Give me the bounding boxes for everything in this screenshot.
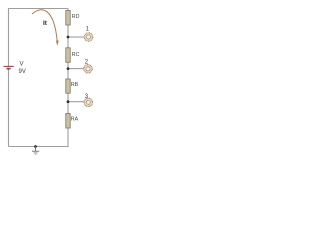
junction node 3 <box>67 100 70 103</box>
resistor RC <box>66 48 80 63</box>
wire: bottom horizontal <box>9 146 69 148</box>
ground junction dot <box>34 145 37 148</box>
wire: right vertical column <box>67 9 69 147</box>
junction node 1 <box>67 36 70 39</box>
wire: to terminal 1 <box>68 36 84 38</box>
terminal 2 <box>84 65 93 74</box>
resistor RA <box>66 114 79 129</box>
svg-text:RA: RA <box>71 117 79 123</box>
svg-text:RD: RD <box>72 14 80 20</box>
terminal 1 <box>84 33 93 42</box>
wire: top horizontal <box>9 8 69 10</box>
resistor RB <box>66 79 79 93</box>
wire: left vertical (top to battery) <box>8 8 10 66</box>
svg-text:1: 1 <box>86 27 90 33</box>
current direction arrow <box>32 10 59 46</box>
svg-text:V: V <box>20 62 24 68</box>
svg-text:RC: RC <box>72 52 80 58</box>
terminal 3 <box>84 98 93 107</box>
wire: left vertical (battery to bottom) <box>8 69 10 147</box>
svg-text:It: It <box>43 20 48 27</box>
resistor RD <box>66 11 80 26</box>
ground <box>32 147 39 155</box>
svg-text:9V: 9V <box>19 69 26 75</box>
wire: to terminal 3 <box>68 101 84 103</box>
svg-text:RB: RB <box>71 82 79 88</box>
junction node 2 <box>67 67 70 70</box>
battery V1 plates <box>4 66 14 68</box>
wire: to terminal 2 <box>68 68 84 70</box>
